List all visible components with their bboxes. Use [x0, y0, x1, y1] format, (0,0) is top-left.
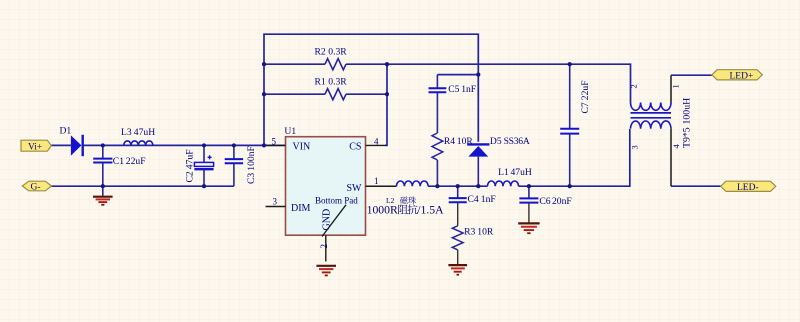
- svg-text:22uF: 22uF: [580, 80, 591, 100]
- svg-text:R2: R2: [315, 47, 326, 58]
- svg-text:C5: C5: [448, 84, 459, 95]
- svg-text:20nF: 20nF: [552, 196, 572, 207]
- svg-text:CS: CS: [349, 142, 361, 153]
- svg-text:2: 2: [629, 84, 639, 88]
- svg-text:DIM: DIM: [291, 203, 311, 214]
- svg-text:R1: R1: [315, 77, 326, 88]
- wire LED+: [671, 74, 712, 76]
- inductor L2 ferrite bead: [367, 181, 445, 217]
- transformer T1: [629, 75, 693, 186]
- flag Vi+: [21, 140, 51, 152]
- svg-text:VIN: VIN: [293, 142, 311, 153]
- svg-text:3: 3: [630, 145, 640, 149]
- capacitor C3: [225, 145, 257, 186]
- capacitor C2 polarized: [185, 145, 214, 186]
- capacitor C5: [429, 84, 477, 95]
- capacitor C7: [560, 64, 591, 186]
- bottom pad diagonal: [322, 205, 346, 237]
- svg-text:GND: GND: [322, 209, 333, 231]
- svg-text:C7: C7: [580, 102, 591, 113]
- svg-text:47uH: 47uH: [134, 127, 155, 138]
- svg-text:L3: L3: [121, 127, 132, 138]
- svg-text:G-: G-: [31, 183, 41, 193]
- wire SW rail: [428, 129, 630, 186]
- svg-text:0.3R: 0.3R: [328, 47, 347, 58]
- svg-text:22uF: 22uF: [126, 156, 146, 167]
- svg-text:D1: D1: [60, 126, 72, 137]
- pin 3 DIM: [266, 197, 286, 207]
- ground at C1: [93, 186, 113, 205]
- resistor R4: [432, 133, 473, 186]
- label L2 cizhu glyphs: [400, 196, 408, 203]
- svg-text:1: 1: [374, 176, 379, 186]
- svg-text:2: 2: [319, 244, 329, 249]
- wire C5 branch: [437, 74, 478, 76]
- pin 2 GND: [319, 235, 329, 261]
- junction dots: [101, 62, 572, 188]
- diode D1: [60, 126, 83, 157]
- resistor R3: [452, 226, 494, 265]
- svg-text:C2: C2: [185, 171, 196, 182]
- resistor R2: [325, 59, 346, 70]
- resistor R1: [325, 89, 346, 100]
- svg-text:SS36A: SS36A: [504, 136, 530, 147]
- svg-text:R3: R3: [464, 227, 475, 238]
- wire R2 row right to transformer pin2: [346, 64, 631, 102]
- svg-text:/1.5A: /1.5A: [417, 204, 444, 217]
- capacitor C6: [519, 186, 571, 222]
- svg-text:D5: D5: [490, 136, 502, 147]
- svg-text:U1: U1: [284, 126, 296, 137]
- svg-text:T9*5: T9*5: [682, 127, 693, 148]
- diode D5: [467, 136, 530, 186]
- flag LED-: [721, 181, 776, 193]
- svg-text:47uF: 47uF: [185, 149, 196, 169]
- svg-text:LED+: LED+: [730, 71, 754, 81]
- svg-text:LED-: LED-: [737, 183, 759, 193]
- wire VIN rail: [51, 144, 286, 146]
- inductor L1: [488, 167, 532, 186]
- svg-text:100uH: 100uH: [682, 98, 693, 125]
- flag LED+: [712, 70, 763, 82]
- svg-text:4: 4: [374, 136, 379, 146]
- wire R1 row: [264, 93, 387, 95]
- op-amp U1 body: [284, 126, 365, 237]
- svg-text:0.3R: 0.3R: [328, 77, 347, 88]
- wire G- rail: [52, 185, 234, 187]
- svg-text:10R: 10R: [477, 227, 494, 238]
- pin 5 VIN: [266, 136, 286, 146]
- label 1000R impedance glyphs: [398, 205, 408, 215]
- svg-text:Vi+: Vi+: [28, 142, 42, 152]
- svg-text:1000R: 1000R: [367, 204, 398, 217]
- capacitor C1: [93, 145, 145, 186]
- svg-text:100nF: 100nF: [246, 146, 257, 171]
- svg-text:R4: R4: [444, 136, 455, 147]
- svg-text:47uH: 47uH: [511, 167, 532, 178]
- ground at U1: [316, 266, 336, 276]
- svg-text:SW: SW: [347, 183, 363, 194]
- ground at R3: [448, 265, 467, 275]
- pin 4 CS: [366, 136, 386, 146]
- wire R2 row: [264, 63, 325, 65]
- flag G-: [22, 181, 51, 192]
- svg-text:1nF: 1nF: [461, 84, 476, 95]
- svg-text:C4: C4: [468, 194, 479, 205]
- svg-text:3: 3: [273, 197, 278, 207]
- capacitor C4: [449, 186, 496, 226]
- svg-text:5: 5: [272, 136, 277, 146]
- inductor L3: [121, 127, 155, 146]
- wire top rectangle net A: [264, 34, 478, 145]
- svg-text:1nF: 1nF: [481, 194, 496, 205]
- wire CS vertical: [385, 64, 387, 145]
- wire LED-: [671, 185, 721, 187]
- pin 1 SW: [366, 176, 397, 186]
- svg-text:C3: C3: [246, 173, 257, 184]
- ground at C6: [518, 223, 539, 233]
- svg-text:Bottom Pad: Bottom Pad: [315, 196, 358, 206]
- svg-text:C1: C1: [113, 156, 124, 167]
- svg-text:1: 1: [671, 84, 681, 88]
- svg-text:C6: C6: [539, 196, 550, 207]
- svg-text:L1: L1: [498, 167, 509, 178]
